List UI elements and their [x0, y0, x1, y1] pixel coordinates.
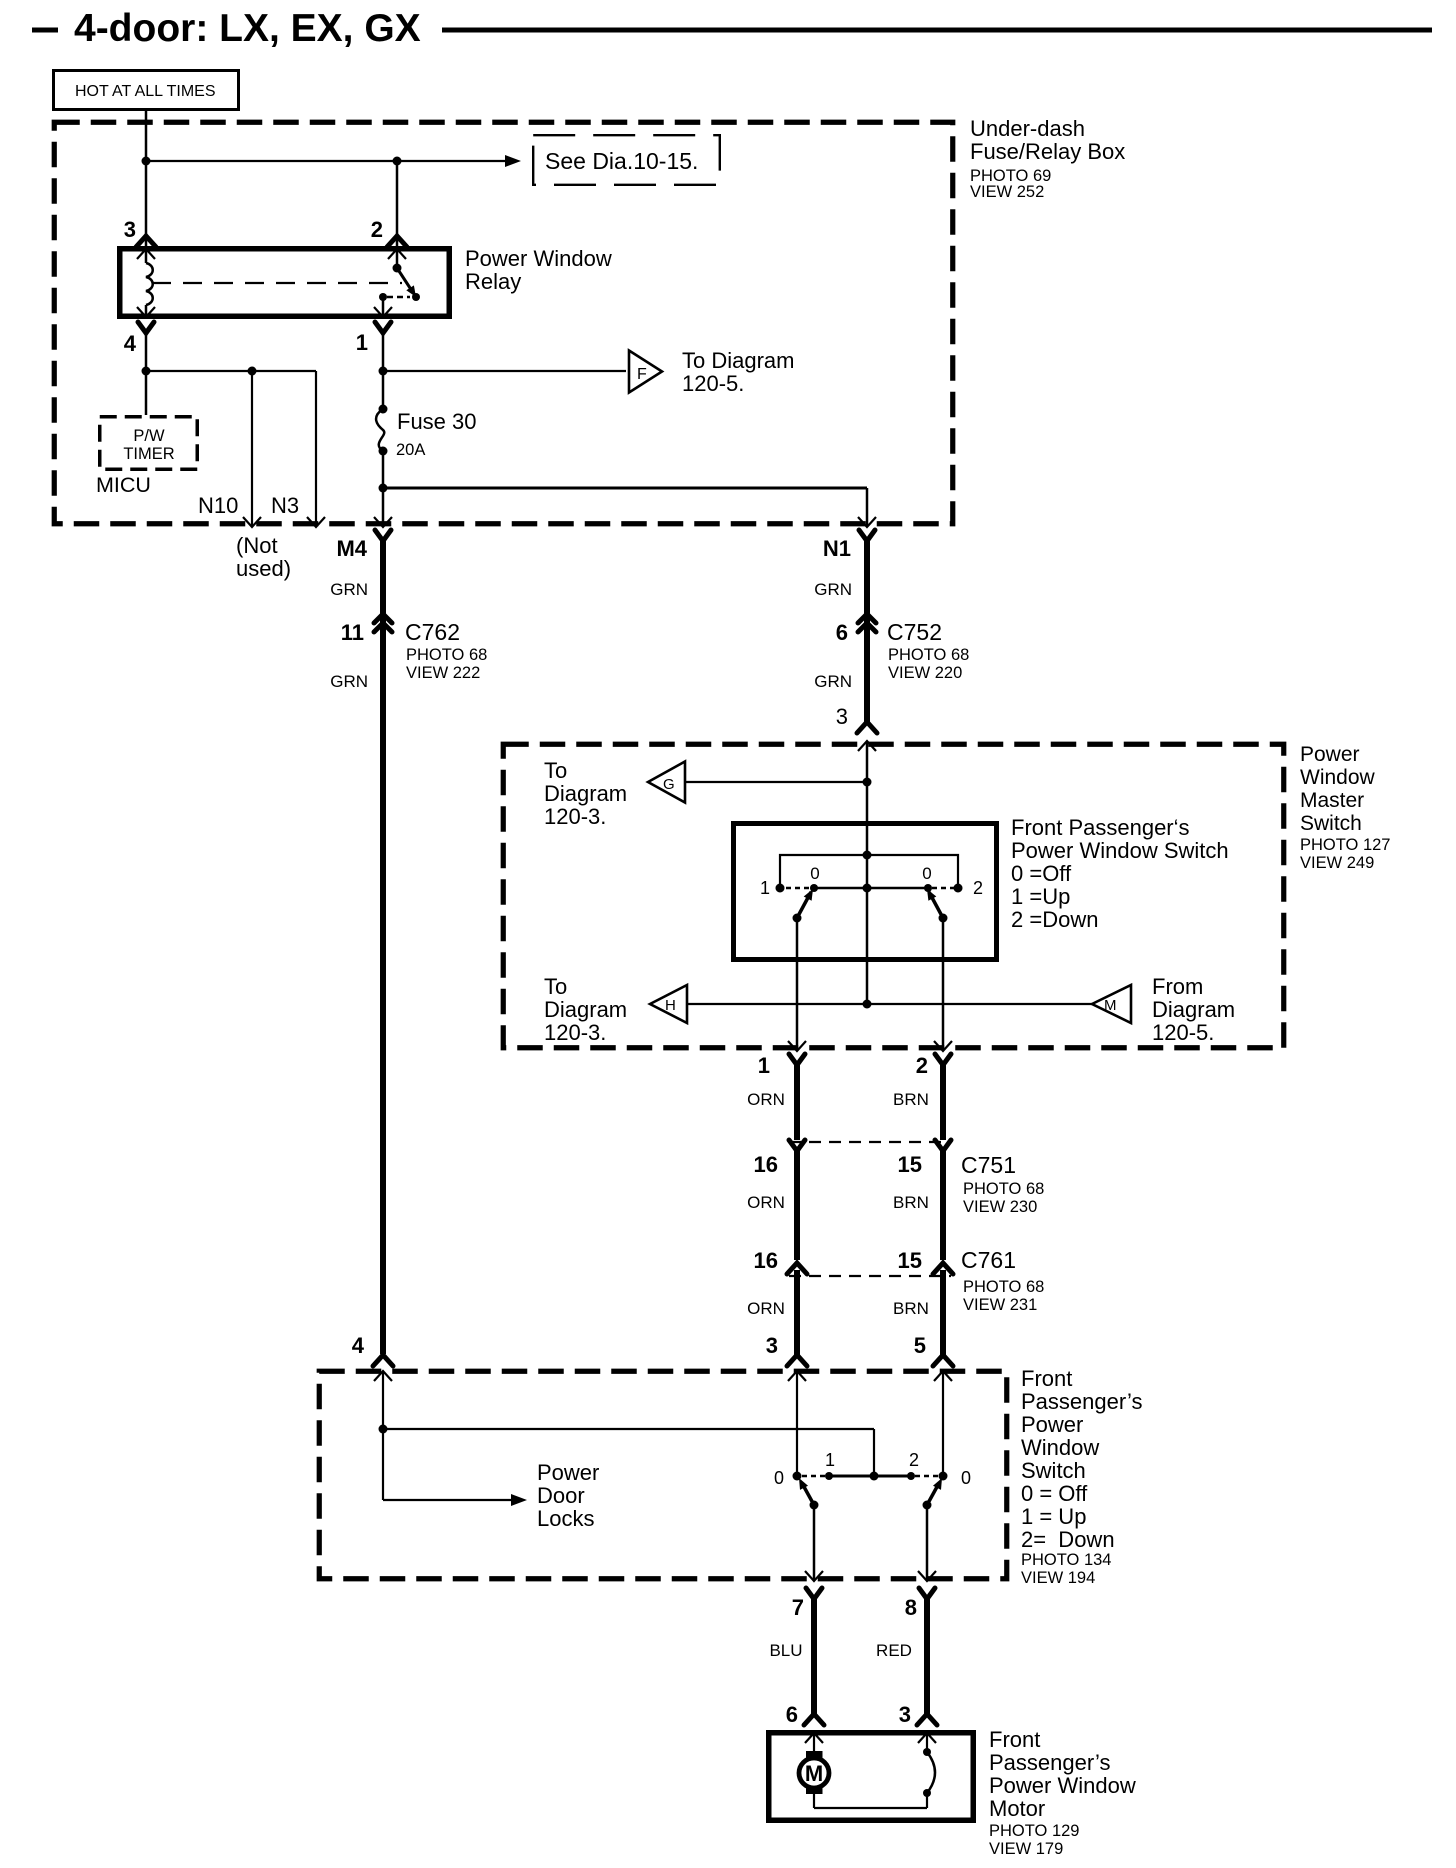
- svg-text:Under-dash: Under-dash: [970, 116, 1085, 141]
- svg-text:8: 8: [905, 1595, 917, 1620]
- svg-text:GRN: GRN: [814, 580, 852, 599]
- svg-text:1: 1: [825, 1450, 835, 1470]
- svg-text:Door: Door: [537, 1483, 585, 1508]
- svg-text:PHOTO 68: PHOTO 68: [963, 1278, 1044, 1296]
- svg-text:F: F: [637, 366, 647, 383]
- svg-text:BLU: BLU: [769, 1641, 802, 1660]
- svg-text:Master: Master: [1300, 789, 1364, 812]
- svg-text:PHOTO 127: PHOTO 127: [1300, 836, 1390, 854]
- svg-text:16: 16: [754, 1248, 778, 1273]
- svg-text:Fuse 30: Fuse 30: [397, 409, 477, 434]
- svg-text:16: 16: [754, 1152, 778, 1177]
- svg-text:M: M: [1104, 997, 1117, 1014]
- svg-text:2: 2: [916, 1053, 928, 1078]
- svg-text:3: 3: [836, 704, 848, 729]
- svg-text:Relay: Relay: [465, 269, 521, 294]
- svg-text:C761: C761: [961, 1247, 1016, 1273]
- svg-text:1: 1: [760, 878, 770, 898]
- svg-text:15: 15: [898, 1152, 922, 1177]
- svg-text:ORN: ORN: [747, 1299, 785, 1318]
- svg-text:P/W: P/W: [133, 427, 165, 445]
- svg-text:4: 4: [352, 1333, 365, 1358]
- svg-text:0: 0: [774, 1468, 784, 1488]
- svg-text:120-5.: 120-5.: [682, 371, 744, 396]
- svg-text:VIEW 179: VIEW 179: [989, 1840, 1063, 1858]
- svg-text:VIEW 252: VIEW 252: [970, 183, 1044, 201]
- svg-text:Power Window: Power Window: [465, 246, 612, 271]
- svg-text:M: M: [805, 1761, 823, 1786]
- svg-text:Window: Window: [1021, 1435, 1099, 1460]
- svg-text:120-3.: 120-3.: [544, 1020, 606, 1045]
- svg-text:C752: C752: [887, 619, 942, 645]
- svg-text:To: To: [544, 758, 567, 783]
- svg-text:3: 3: [766, 1333, 778, 1358]
- svg-text:VIEW 222: VIEW 222: [406, 664, 480, 682]
- svg-text:Fuse/Relay Box: Fuse/Relay Box: [970, 139, 1125, 164]
- svg-text:GRN: GRN: [330, 580, 368, 599]
- svg-text:MICU: MICU: [96, 473, 151, 497]
- svg-text:TIMER: TIMER: [123, 445, 174, 463]
- svg-text:2: 2: [371, 217, 383, 242]
- svg-text:C751: C751: [961, 1152, 1016, 1178]
- svg-text:0: 0: [922, 864, 931, 883]
- svg-text:2= Down: 2= Down: [1021, 1527, 1115, 1552]
- svg-text:6: 6: [786, 1702, 798, 1727]
- svg-text:7: 7: [792, 1595, 804, 1620]
- svg-text:2 =Down: 2 =Down: [1011, 907, 1098, 932]
- svg-text:Diagram: Diagram: [544, 781, 627, 806]
- svg-text:PHOTO 68: PHOTO 68: [963, 1180, 1044, 1198]
- svg-text:Power Window Switch: Power Window Switch: [1011, 838, 1229, 863]
- svg-text:1 =Up: 1 =Up: [1011, 884, 1070, 909]
- svg-text:BRN: BRN: [893, 1299, 929, 1318]
- svg-text:N3: N3: [271, 493, 299, 518]
- svg-text:VIEW 220: VIEW 220: [888, 664, 962, 682]
- svg-text:Front Passenger‘s: Front Passenger‘s: [1011, 815, 1190, 840]
- svg-text:PHOTO 68: PHOTO 68: [888, 646, 969, 664]
- svg-text:1: 1: [356, 330, 368, 355]
- svg-text:Power Window: Power Window: [989, 1773, 1136, 1798]
- svg-text:PHOTO 129: PHOTO 129: [989, 1822, 1079, 1840]
- svg-text:Diagram: Diagram: [544, 997, 627, 1022]
- svg-text:ORN: ORN: [747, 1090, 785, 1109]
- svg-text:N1: N1: [823, 536, 851, 561]
- svg-text:Diagram: Diagram: [1152, 997, 1235, 1022]
- svg-text:N10: N10: [198, 493, 238, 518]
- svg-text:3: 3: [899, 1702, 911, 1727]
- svg-text:Passenger’s: Passenger’s: [989, 1750, 1110, 1775]
- svg-text:HOT AT ALL TIMES: HOT AT ALL TIMES: [75, 83, 216, 100]
- svg-text:20A: 20A: [396, 441, 425, 459]
- svg-text:2: 2: [909, 1450, 919, 1470]
- svg-text:Power: Power: [1021, 1412, 1083, 1437]
- svg-text:1: 1: [758, 1053, 770, 1078]
- svg-text:4-door: LX, EX, GX: 4-door: LX, EX, GX: [74, 7, 421, 50]
- svg-text:GRN: GRN: [330, 672, 368, 691]
- svg-text:0 =Off: 0 =Off: [1011, 861, 1072, 886]
- svg-text:C762: C762: [405, 619, 460, 645]
- svg-text:0 = Off: 0 = Off: [1021, 1481, 1088, 1506]
- svg-text:PHOTO 134: PHOTO 134: [1021, 1551, 1111, 1569]
- svg-text:Power: Power: [1300, 743, 1360, 766]
- svg-text:VIEW 194: VIEW 194: [1021, 1569, 1095, 1587]
- svg-text:15: 15: [898, 1248, 922, 1273]
- svg-text:1 = Up: 1 = Up: [1021, 1504, 1086, 1529]
- svg-text:M4: M4: [336, 536, 367, 561]
- svg-text:used): used): [236, 556, 291, 581]
- svg-text:BRN: BRN: [893, 1193, 929, 1212]
- svg-text:Power: Power: [537, 1460, 599, 1485]
- svg-text:Window: Window: [1300, 766, 1376, 789]
- svg-text:3: 3: [124, 217, 136, 242]
- svg-text:Switch: Switch: [1300, 812, 1362, 835]
- svg-text:Locks: Locks: [537, 1506, 594, 1531]
- svg-text:Switch: Switch: [1021, 1458, 1086, 1483]
- svg-text:Passenger’s: Passenger’s: [1021, 1389, 1142, 1414]
- svg-text:Front: Front: [1021, 1366, 1072, 1391]
- svg-text:GRN: GRN: [814, 672, 852, 691]
- svg-text:2: 2: [973, 878, 983, 898]
- svg-text:120-5.: 120-5.: [1152, 1020, 1214, 1045]
- svg-text:BRN: BRN: [893, 1090, 929, 1109]
- svg-text:0: 0: [810, 864, 819, 883]
- svg-text:G: G: [663, 776, 675, 793]
- svg-text:H: H: [665, 997, 676, 1014]
- svg-text:6: 6: [836, 620, 848, 645]
- svg-text:5: 5: [914, 1333, 926, 1358]
- svg-text:VIEW 249: VIEW 249: [1300, 854, 1374, 872]
- svg-text:RED: RED: [876, 1641, 912, 1660]
- svg-text:ORN: ORN: [747, 1193, 785, 1212]
- svg-text:120-3.: 120-3.: [544, 804, 606, 829]
- svg-text:11: 11: [341, 620, 364, 645]
- svg-text:To: To: [544, 974, 567, 999]
- svg-text:VIEW 230: VIEW 230: [963, 1198, 1037, 1216]
- svg-text:(Not: (Not: [236, 533, 278, 558]
- svg-text:PHOTO 68: PHOTO 68: [406, 646, 487, 664]
- svg-text:VIEW 231: VIEW 231: [963, 1296, 1037, 1314]
- svg-text:To Diagram: To Diagram: [682, 348, 794, 373]
- svg-text:4: 4: [124, 331, 137, 356]
- svg-text:See Dia.10-15.: See Dia.10-15.: [545, 148, 698, 174]
- svg-text:0: 0: [961, 1468, 971, 1488]
- svg-text:Motor: Motor: [989, 1796, 1045, 1821]
- svg-text:From: From: [1152, 974, 1203, 999]
- svg-text:Front: Front: [989, 1727, 1040, 1752]
